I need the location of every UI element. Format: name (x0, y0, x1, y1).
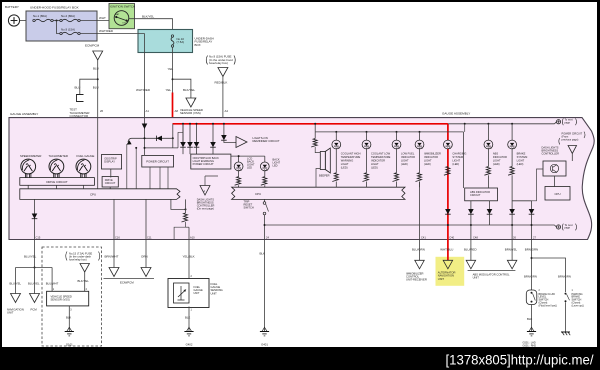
svg-text:BLU: BLU (75, 86, 81, 90)
svg-text:BAT: BAT (115, 13, 120, 16)
svg-text:26: 26 (100, 109, 104, 113)
svg-text:BLK: BLK (260, 251, 266, 255)
svg-text:PCM: PCM (31, 307, 38, 311)
svg-text:No.1 (80A): No.1 (80A) (33, 14, 47, 18)
svg-text:BOX: BOX (195, 43, 201, 47)
svg-text:RED/BLK: RED/BLK (215, 81, 228, 85)
svg-text:POWER CIRCUIT: POWER CIRCUIT (193, 162, 214, 166)
svg-text:A4: A4 (225, 109, 229, 113)
svg-text:ABS: ABS (493, 152, 498, 156)
svg-text:(LED): (LED) (517, 162, 524, 166)
svg-text:BRN/ORN: BRN/ORN (524, 274, 537, 278)
svg-text:BRN/ORN: BRN/ORN (558, 274, 571, 278)
svg-text:LIGHT: LIGHT (517, 159, 525, 163)
svg-text:LIGHT: LIGHT (452, 159, 460, 163)
svg-text:CONTROLLER: CONTROLLER (542, 152, 560, 156)
svg-text:BRN/ORN: BRN/ORN (525, 248, 538, 252)
svg-text:FUEL GAUGE: FUEL GAUGE (77, 154, 95, 158)
svg-text:TEMPERATURE: TEMPERATURE (371, 155, 391, 159)
svg-text:BLU: BLU (93, 67, 99, 71)
svg-text:page: page (565, 121, 571, 124)
svg-text:BLU/WHT: BLU/WHT (46, 282, 59, 286)
svg-text:WHT/BLU: WHT/BLU (440, 248, 453, 252)
svg-text:(On next page): (On next page) (197, 206, 214, 210)
svg-text:(LED): (LED) (341, 165, 348, 169)
svg-text:INDICATOR: INDICATOR (401, 155, 415, 159)
svg-text:COOLANT HIGH: COOLANT HIGH (341, 152, 361, 156)
svg-text:C48: C48 (473, 236, 478, 240)
svg-text:WHT/RED: WHT/RED (99, 29, 114, 33)
svg-text:CHARGING: CHARGING (452, 152, 466, 156)
svg-text:(LED): (LED) (493, 162, 500, 166)
svg-text:A8: A8 (175, 109, 179, 113)
svg-text:BRAKE: BRAKE (517, 152, 526, 156)
svg-text:REMINDER CIRCUIT: REMINDER CIRCUIT (253, 139, 280, 143)
svg-text:UNIT: UNIT (473, 276, 480, 280)
svg-text:IGNITION SWITCH: IGNITION SWITCH (110, 4, 135, 8)
svg-text:BLU/RED: BLU/RED (464, 248, 477, 252)
svg-text:BATTERY: BATTERY (5, 5, 19, 9)
svg-text:LIGHT: LIGHT (371, 162, 379, 166)
svg-text:C15: C15 (36, 236, 41, 240)
svg-text:ECM/PCM: ECM/PCM (85, 43, 100, 47)
svg-text:INDICATOR: INDICATOR (493, 155, 507, 159)
svg-text:(7.5A): (7.5A) (177, 40, 185, 44)
svg-text:UNIT-RECEIVER: UNIT-RECEIVER (406, 278, 427, 282)
svg-text:A10: A10 (190, 236, 195, 240)
svg-text:(LED): (LED) (401, 162, 408, 166)
svg-text:BLK/YEL: BLK/YEL (78, 279, 90, 283)
svg-text:(Lever up)): (Lever up)) (572, 304, 584, 307)
svg-text:YEL: YEL (166, 88, 172, 92)
svg-text:CPU: CPU (554, 192, 560, 196)
svg-text:YEL/BLK: YEL/BLK (183, 254, 195, 258)
svg-text:YEL: YEL (168, 67, 174, 71)
svg-text:BLU/YEL: BLU/YEL (28, 282, 40, 286)
svg-text:UNIT: UNIT (211, 291, 218, 295)
svg-text:GAUGE ASSEMBLY: GAUGE ASSEMBLY (10, 112, 38, 116)
svg-text:C40: C40 (449, 236, 454, 240)
svg-text:LIGHT: LIGHT (424, 159, 432, 163)
svg-text:LIGHT: LIGHT (401, 159, 409, 163)
svg-text:SWITCH: SWITCH (244, 206, 254, 210)
svg-text:UNIT: UNIT (438, 277, 445, 281)
svg-text:G601 : RHD: G601 : RHD (523, 345, 537, 348)
svg-text:G101: G101 (66, 342, 73, 346)
svg-text:INDICATOR: INDICATOR (371, 159, 385, 163)
svg-text:No.2 (80A): No.2 (80A) (61, 14, 75, 18)
svg-text:BLK/YEL: BLK/YEL (183, 88, 196, 92)
svg-text:page: page (565, 227, 571, 230)
svg-text:SENSOR (VSS): SENSOR (VSS) (51, 298, 70, 302)
svg-text:SYSTEM: SYSTEM (517, 155, 528, 159)
svg-text:WHT/RED: WHT/RED (136, 88, 151, 92)
svg-text:WARNING: WARNING (341, 159, 353, 163)
svg-text:GAUGE ASSEMBLY: GAUGE ASSEMBLY (442, 112, 470, 116)
svg-text:(Fluid level low)): (Fluid level low)) (539, 304, 557, 307)
svg-text:SPEEDOMETER: SPEEDOMETER (20, 154, 41, 158)
svg-text:LED: LED (273, 163, 278, 167)
svg-text:TEMPERATURE: TEMPERATURE (341, 155, 361, 159)
svg-text:POWER CIRCUIT: POWER CIRCUIT (146, 160, 169, 164)
svg-text:WHT: WHT (99, 16, 106, 20)
svg-text:BLK: BLK (66, 316, 71, 320)
svg-text:previous page): previous page) (562, 137, 579, 141)
svg-text:G402: G402 (186, 342, 193, 346)
svg-text:COOLANT LOW: COOLANT LOW (371, 152, 391, 156)
svg-text:ECM/PCM: ECM/PCM (120, 281, 134, 285)
svg-text:C16: C16 (115, 236, 120, 240)
svg-text:BRN/YEL: BRN/YEL (505, 248, 518, 252)
svg-text:CIRCUIT: CIRCUIT (470, 193, 481, 197)
svg-text:TACHOMETER: TACHOMETER (49, 154, 68, 158)
svg-text:BRN/WHT: BRN/WHT (105, 254, 119, 258)
svg-text:No.9 (15A): No.9 (15A) (61, 28, 75, 32)
svg-text:BLK: BLK (185, 316, 190, 320)
svg-text:BLU/ORN: BLU/ORN (412, 248, 425, 252)
svg-text:G401: G401 (261, 342, 268, 346)
svg-text:UNIT: UNIT (194, 291, 200, 295)
svg-text:A1: A1 (146, 109, 150, 113)
svg-text:fuse/relay box): fuse/relay box) (69, 257, 87, 261)
svg-text:BLU/YEL: BLU/YEL (10, 282, 22, 286)
svg-text:(LED): (LED) (424, 162, 431, 166)
svg-text:DRIVE CIRCUIT: DRIVE CIRCUIT (46, 180, 68, 184)
svg-text:IMMOBILIZER: IMMOBILIZER (424, 152, 441, 156)
svg-text:UNIT: UNIT (7, 311, 14, 315)
svg-text:C11: C11 (147, 236, 152, 240)
svg-text:fuse/relay box): fuse/relay box) (209, 61, 228, 65)
svg-text:DISPLAY: DISPLAY (104, 159, 115, 163)
svg-text:ORN: ORN (141, 254, 148, 258)
svg-text:SYSTEM: SYSTEM (452, 155, 463, 159)
svg-text:(LED): (LED) (371, 165, 378, 169)
svg-text:LIGHT: LIGHT (341, 162, 349, 166)
svg-text:LED: LED (247, 165, 252, 169)
svg-text:SENSOR (VSS): SENSOR (VSS) (180, 111, 201, 115)
svg-text:INDICATOR: INDICATOR (424, 155, 438, 159)
svg-text:CIRCUIT: CIRCUIT (105, 181, 116, 185)
svg-text:BLK/YEL: BLK/YEL (142, 14, 155, 18)
svg-text:CPU: CPU (255, 192, 261, 196)
svg-text:BLK: BLK (527, 317, 532, 321)
svg-text:(LED): (LED) (452, 162, 459, 166)
svg-text:CPU: CPU (90, 193, 96, 197)
svg-text:C41: C41 (421, 236, 426, 240)
svg-text:LIGHT: LIGHT (493, 159, 501, 163)
svg-text:UNDER-HOOD FUSE/RELAY BOX: UNDER-HOOD FUSE/RELAY BOX (30, 6, 79, 10)
svg-text:[1378x805]http://upic.me/: [1378x805]http://upic.me/ (446, 352, 594, 367)
svg-text:LOW FUEL: LOW FUEL (401, 152, 415, 156)
svg-text:BLU: BLU (93, 86, 99, 90)
svg-text:BEEPER: BEEPER (319, 173, 330, 177)
svg-text:BLU/YEL: BLU/YEL (24, 254, 37, 258)
